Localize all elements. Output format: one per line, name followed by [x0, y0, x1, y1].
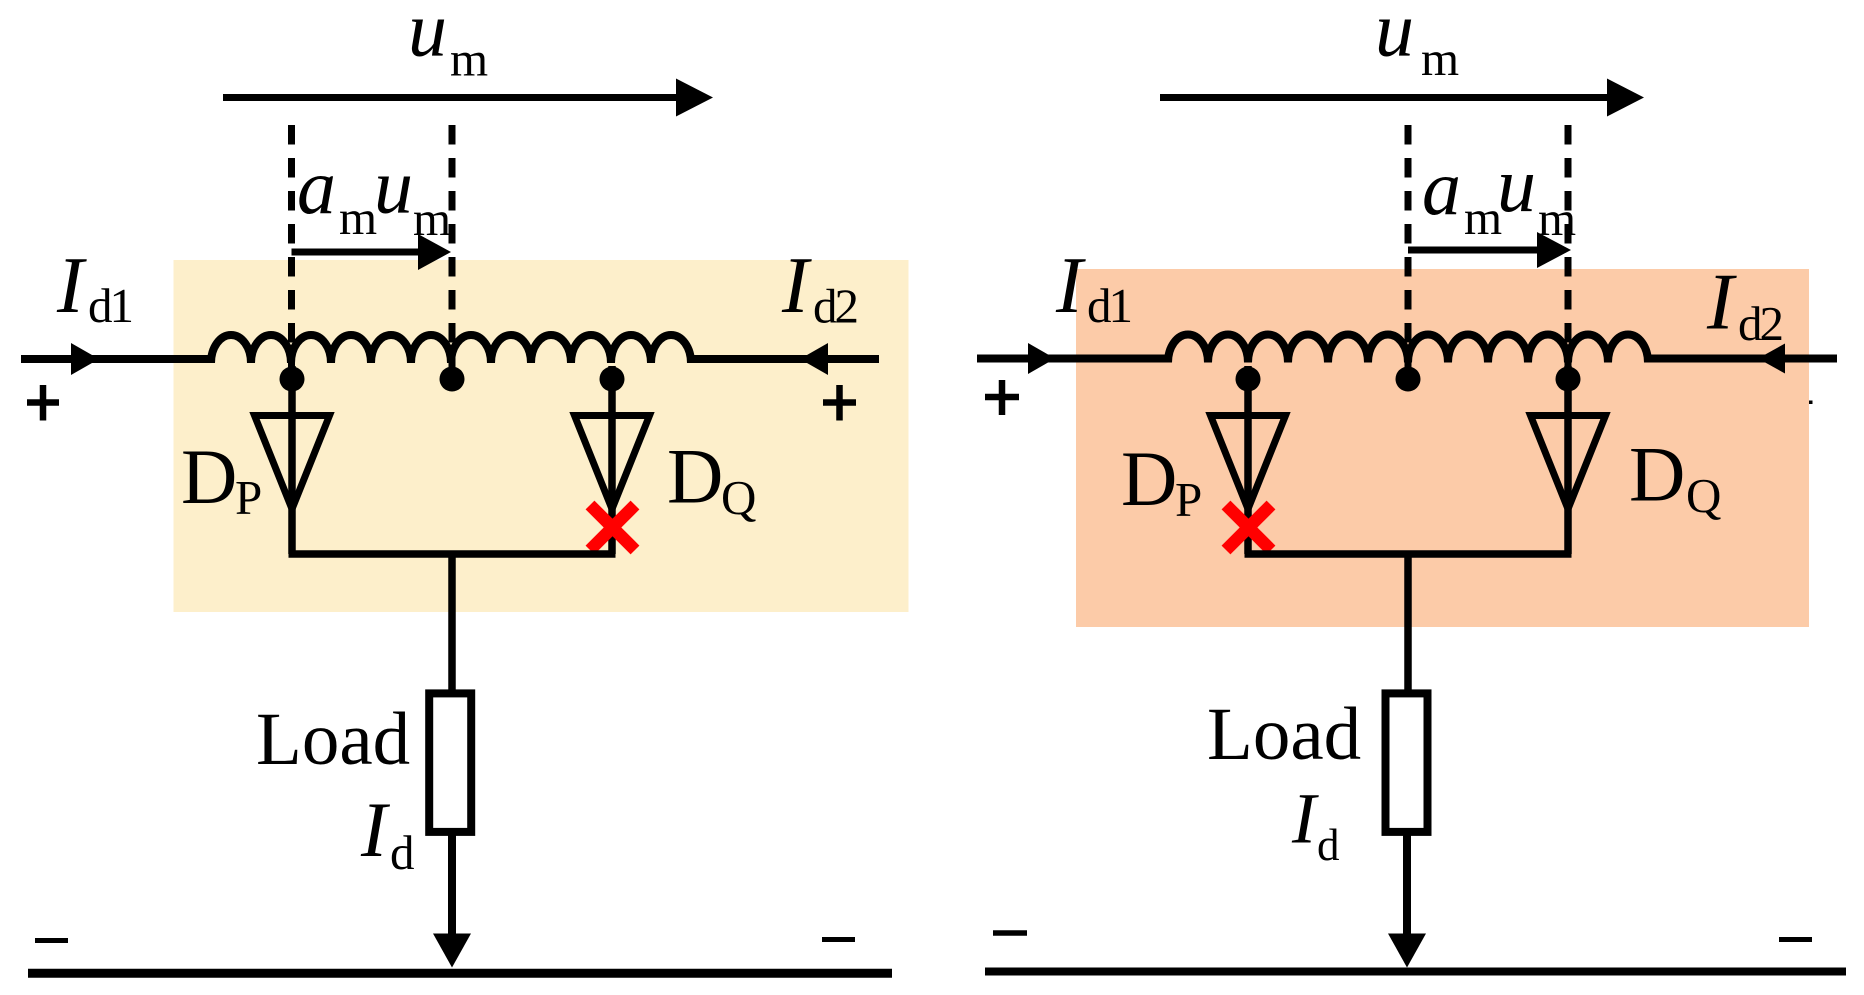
label I_d1 (left) [56, 242, 132, 333]
highlight box (left circuit, cream) [174, 260, 909, 612]
voltage arrow u_m (right) [1160, 79, 1644, 117]
svg-text:P: P [1175, 472, 1202, 527]
svg-text:I: I [56, 242, 87, 330]
junction dot 3 (left circuit) [600, 367, 625, 392]
svg-text:I: I [1706, 259, 1737, 347]
label D_P (right) [1121, 435, 1202, 527]
svg-text:I: I [1055, 242, 1086, 330]
svg-text:d: d [1317, 820, 1340, 870]
label D_Q (right) [1629, 431, 1721, 524]
minus sign (right circuit, right) [1779, 937, 1812, 942]
svg-text:u: u [374, 143, 413, 230]
junction dot 1 (right circuit) [1236, 367, 1261, 392]
junction dot center tap (right circuit) [1396, 367, 1421, 392]
svg-text:I: I [781, 242, 812, 330]
current arrow I_d1 (left circuit) [71, 343, 99, 375]
svg-text:P: P [235, 470, 262, 525]
right terminal wire (left circuit) [691, 355, 879, 363]
svg-text:d1: d1 [1087, 278, 1131, 333]
load resistor (left circuit) [429, 693, 471, 832]
minus sign (left circuit, right) [822, 937, 855, 942]
load stem wire (right circuit) [1404, 554, 1412, 694]
label D_Q (left) [667, 433, 756, 526]
left terminal wire (left circuit) [21, 355, 213, 363]
negative rail (right circuit) [985, 968, 1846, 976]
junction dot center tap (left circuit) [440, 367, 465, 392]
diode D_Q wire stem (left circuit) [608, 366, 616, 554]
svg-text:I: I [1291, 779, 1319, 859]
dashed tap line (right circuit, over dot 3) [1565, 125, 1572, 372]
load stem wire (left circuit) [448, 554, 456, 694]
dashed tap line (left circuit, over dot 1) [288, 125, 295, 372]
label u_m (right) [1375, 0, 1459, 86]
label I_d1 (right) [1055, 242, 1131, 333]
svg-text:d2: d2 [1738, 296, 1782, 351]
svg-text:d1: d1 [88, 278, 132, 333]
negative rail (left circuit) [28, 969, 892, 978]
svg-text:u: u [1497, 141, 1536, 228]
label D_P (left) [181, 433, 262, 525]
svg-text:Load: Load [256, 698, 410, 781]
svg-text:I: I [360, 786, 391, 873]
left terminal wire (right circuit) [977, 355, 1170, 363]
current arrow I_d2 (right circuit) [1758, 344, 1785, 374]
diode D_P wire stem (left circuit) [288, 366, 296, 554]
plus terminal sign (right circuit, left side) [985, 380, 1019, 415]
svg-text:Q: Q [1686, 468, 1721, 523]
minus sign (left circuit, left) [35, 938, 68, 943]
voltage arrow u_m (left) [223, 79, 713, 117]
right terminal wire (right circuit) [1648, 355, 1837, 363]
label u_m (left) [408, 0, 488, 87]
diode D_P triangle (right circuit) [1211, 416, 1286, 510]
svg-text:d2: d2 [813, 279, 857, 334]
highlight box (right circuit, orange) [1076, 269, 1809, 627]
minus sign (right circuit, left) [993, 930, 1027, 936]
clipped minus mark (right circuit, right edge) [1809, 401, 1813, 405]
svg-text:Q: Q [721, 470, 756, 525]
svg-text:D: D [1121, 435, 1177, 522]
svg-text:D: D [181, 433, 237, 520]
svg-text:m: m [339, 190, 377, 245]
tap displacement arrow a_m u_m (right) [1408, 232, 1571, 268]
junction dot 1 (left circuit) [280, 367, 305, 392]
svg-text:D: D [667, 433, 723, 520]
output wire (right circuit) [1403, 831, 1411, 940]
inductor winding (left circuit) [211, 335, 691, 363]
diode D_P wire stem (right circuit) [1244, 366, 1252, 554]
label a_m u_m (right) [1422, 141, 1576, 246]
current arrow I_d (left circuit) [433, 934, 471, 968]
svg-text:a: a [297, 143, 336, 230]
fault cross on D_P (right circuit) [1226, 505, 1271, 550]
svg-text:u: u [1375, 0, 1414, 73]
dashed tap line (right circuit, over center dot) [1405, 125, 1412, 372]
load resistor (right circuit) [1386, 693, 1428, 832]
current arrow I_d1 (right circuit) [1028, 343, 1055, 374]
label I_d2 (left) [781, 242, 857, 334]
diode D_Q wire stem (right circuit) [1564, 366, 1572, 554]
diode D_Q triangle (left circuit) [575, 416, 650, 510]
current arrow I_d (right circuit) [1388, 934, 1426, 968]
diode D_Q triangle (right circuit) [1531, 416, 1606, 510]
plus terminal sign (left circuit, right side) [823, 385, 856, 421]
svg-text:d: d [390, 825, 415, 880]
junction dot 3 (right circuit) [1556, 367, 1581, 392]
current arrow I_d2 (left circuit) [800, 343, 828, 375]
fault cross on D_Q (left circuit) [590, 505, 635, 550]
svg-text:a: a [1422, 144, 1461, 231]
cathode bus wire (left circuit) [289, 550, 616, 558]
dashed tap line (left circuit, over center dot) [449, 125, 456, 372]
svg-text:m: m [450, 32, 488, 87]
output wire (left circuit) [448, 831, 456, 940]
inductor winding (right circuit) [1168, 335, 1648, 363]
label I_d (right) [1291, 779, 1340, 871]
svg-text:u: u [408, 0, 447, 73]
label a_m u_m (left) [297, 143, 451, 246]
diode D_P triangle (left circuit) [255, 416, 330, 510]
svg-text:D: D [1629, 431, 1685, 518]
cathode bus wire (right circuit) [1245, 550, 1572, 558]
label I_d2 (right) [1706, 259, 1782, 352]
plus terminal sign (left circuit, left side) [27, 385, 59, 421]
svg-text:m: m [1421, 31, 1459, 86]
tap displacement arrow a_m u_m (left) [292, 234, 452, 270]
label I_d (left) [360, 786, 415, 880]
svg-text:Load: Load [1207, 693, 1361, 776]
